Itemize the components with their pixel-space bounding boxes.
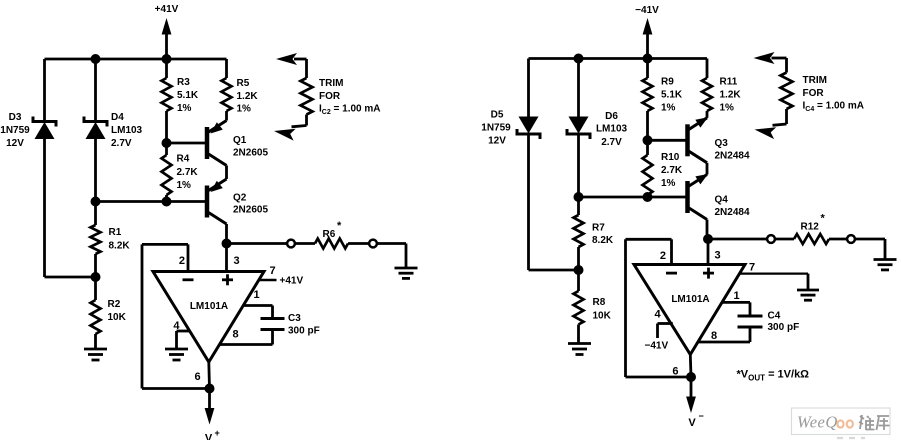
svg-text:R8: R8 [593,297,606,308]
svg-text:+41V: +41V [155,4,179,15]
svg-text:1: 1 [254,289,260,301]
svg-text:R3: R3 [177,77,190,88]
svg-text:*: * [337,220,342,232]
svg-text:10K: 10K [108,312,127,323]
svg-text:WeeQ: WeeQ [797,413,838,432]
svg-text:TRIM: TRIM [803,75,827,86]
svg-text:D4: D4 [111,112,124,123]
svg-text:R12: R12 [801,222,820,233]
svg-text:+41V: +41V [280,276,304,287]
svg-text:8.2K: 8.2K [109,241,131,252]
svg-text:C4: C4 [768,311,781,322]
svg-text:*VOUT = 1V/kΩ: *VOUT = 1V/kΩ [737,369,810,383]
svg-text:Q3: Q3 [715,138,729,149]
svg-text:+: + [215,428,220,438]
svg-text:1.2K: 1.2K [720,90,742,101]
svg-text:1: 1 [734,290,740,302]
svg-text:6: 6 [672,366,678,378]
svg-text:1%: 1% [720,103,735,114]
svg-text:Q2: Q2 [233,193,247,204]
svg-text:FOR: FOR [803,88,825,99]
svg-text:1.2K: 1.2K [237,91,259,102]
svg-text:300 pF: 300 pF [288,326,320,337]
svg-text:R10: R10 [661,152,680,163]
svg-text:V: V [688,417,696,429]
svg-text:3: 3 [715,250,721,262]
svg-text:2N2484: 2N2484 [715,207,750,218]
svg-text:IC2 = 1.00 mA: IC2 = 1.00 mA [319,104,381,117]
svg-text:8.2K: 8.2K [592,235,614,246]
svg-text:R6: R6 [323,229,336,240]
svg-text:8: 8 [233,329,239,341]
svg-text:2: 2 [179,255,185,267]
svg-text:R7: R7 [592,223,605,234]
svg-text:10K: 10K [593,311,612,322]
svg-text:2.7K: 2.7K [661,165,683,176]
svg-text:*: * [821,213,826,225]
svg-text:1%: 1% [177,180,192,191]
svg-text:R5: R5 [237,78,250,89]
svg-text:TRIM: TRIM [319,78,343,89]
svg-text:2: 2 [660,250,666,262]
svg-text:C3: C3 [288,313,301,324]
svg-text:LM101A: LM101A [671,294,709,305]
svg-text:2.7V: 2.7V [601,137,622,148]
svg-text:2.7V: 2.7V [111,138,132,149]
svg-text:R2: R2 [108,299,121,310]
svg-text:8: 8 [711,330,717,342]
svg-text:Q1: Q1 [233,135,247,146]
svg-text:D6: D6 [605,111,618,122]
svg-text:3: 3 [234,255,240,267]
svg-text:−: − [699,411,704,421]
svg-text:7: 7 [749,261,755,273]
svg-text:LM103: LM103 [596,124,628,135]
svg-text:−41V: −41V [645,341,669,352]
svg-text:D5: D5 [491,110,504,121]
svg-text:2N2484: 2N2484 [715,151,750,162]
svg-text:IC4 = 1.00 mA: IC4 = 1.00 mA [803,101,865,114]
svg-text:R11: R11 [720,77,738,88]
svg-text:5.1K: 5.1K [661,90,683,101]
svg-text:R1: R1 [109,227,122,238]
svg-text:5.1K: 5.1K [177,90,199,101]
svg-text:4: 4 [654,309,661,321]
svg-text:2.7K: 2.7K [177,167,199,178]
svg-text:LM101A: LM101A [190,301,228,312]
svg-text:7: 7 [269,265,275,277]
svg-text:Q4: Q4 [715,195,729,206]
svg-text:1%: 1% [177,103,192,114]
svg-text:1N759: 1N759 [0,125,30,136]
svg-text:FOR: FOR [319,91,341,102]
svg-text:R9: R9 [661,77,674,88]
svg-text:2N2605: 2N2605 [233,205,268,216]
svg-text:D3: D3 [9,112,22,123]
svg-text:12V: 12V [6,138,24,149]
svg-text:1N759: 1N759 [481,123,511,134]
svg-text:V: V [205,433,213,440]
svg-text:1%: 1% [237,104,252,115]
svg-text:R4: R4 [177,154,190,165]
svg-text:4: 4 [173,320,180,332]
svg-text:1%: 1% [661,178,676,189]
svg-text:300 pF: 300 pF [768,322,800,333]
svg-text:−41V: −41V [635,5,659,16]
svg-text:1%: 1% [661,103,676,114]
svg-text:LM103: LM103 [111,125,143,136]
svg-text:12V: 12V [488,136,506,147]
svg-text:6: 6 [195,371,201,383]
svg-text:2N2605: 2N2605 [233,148,268,159]
